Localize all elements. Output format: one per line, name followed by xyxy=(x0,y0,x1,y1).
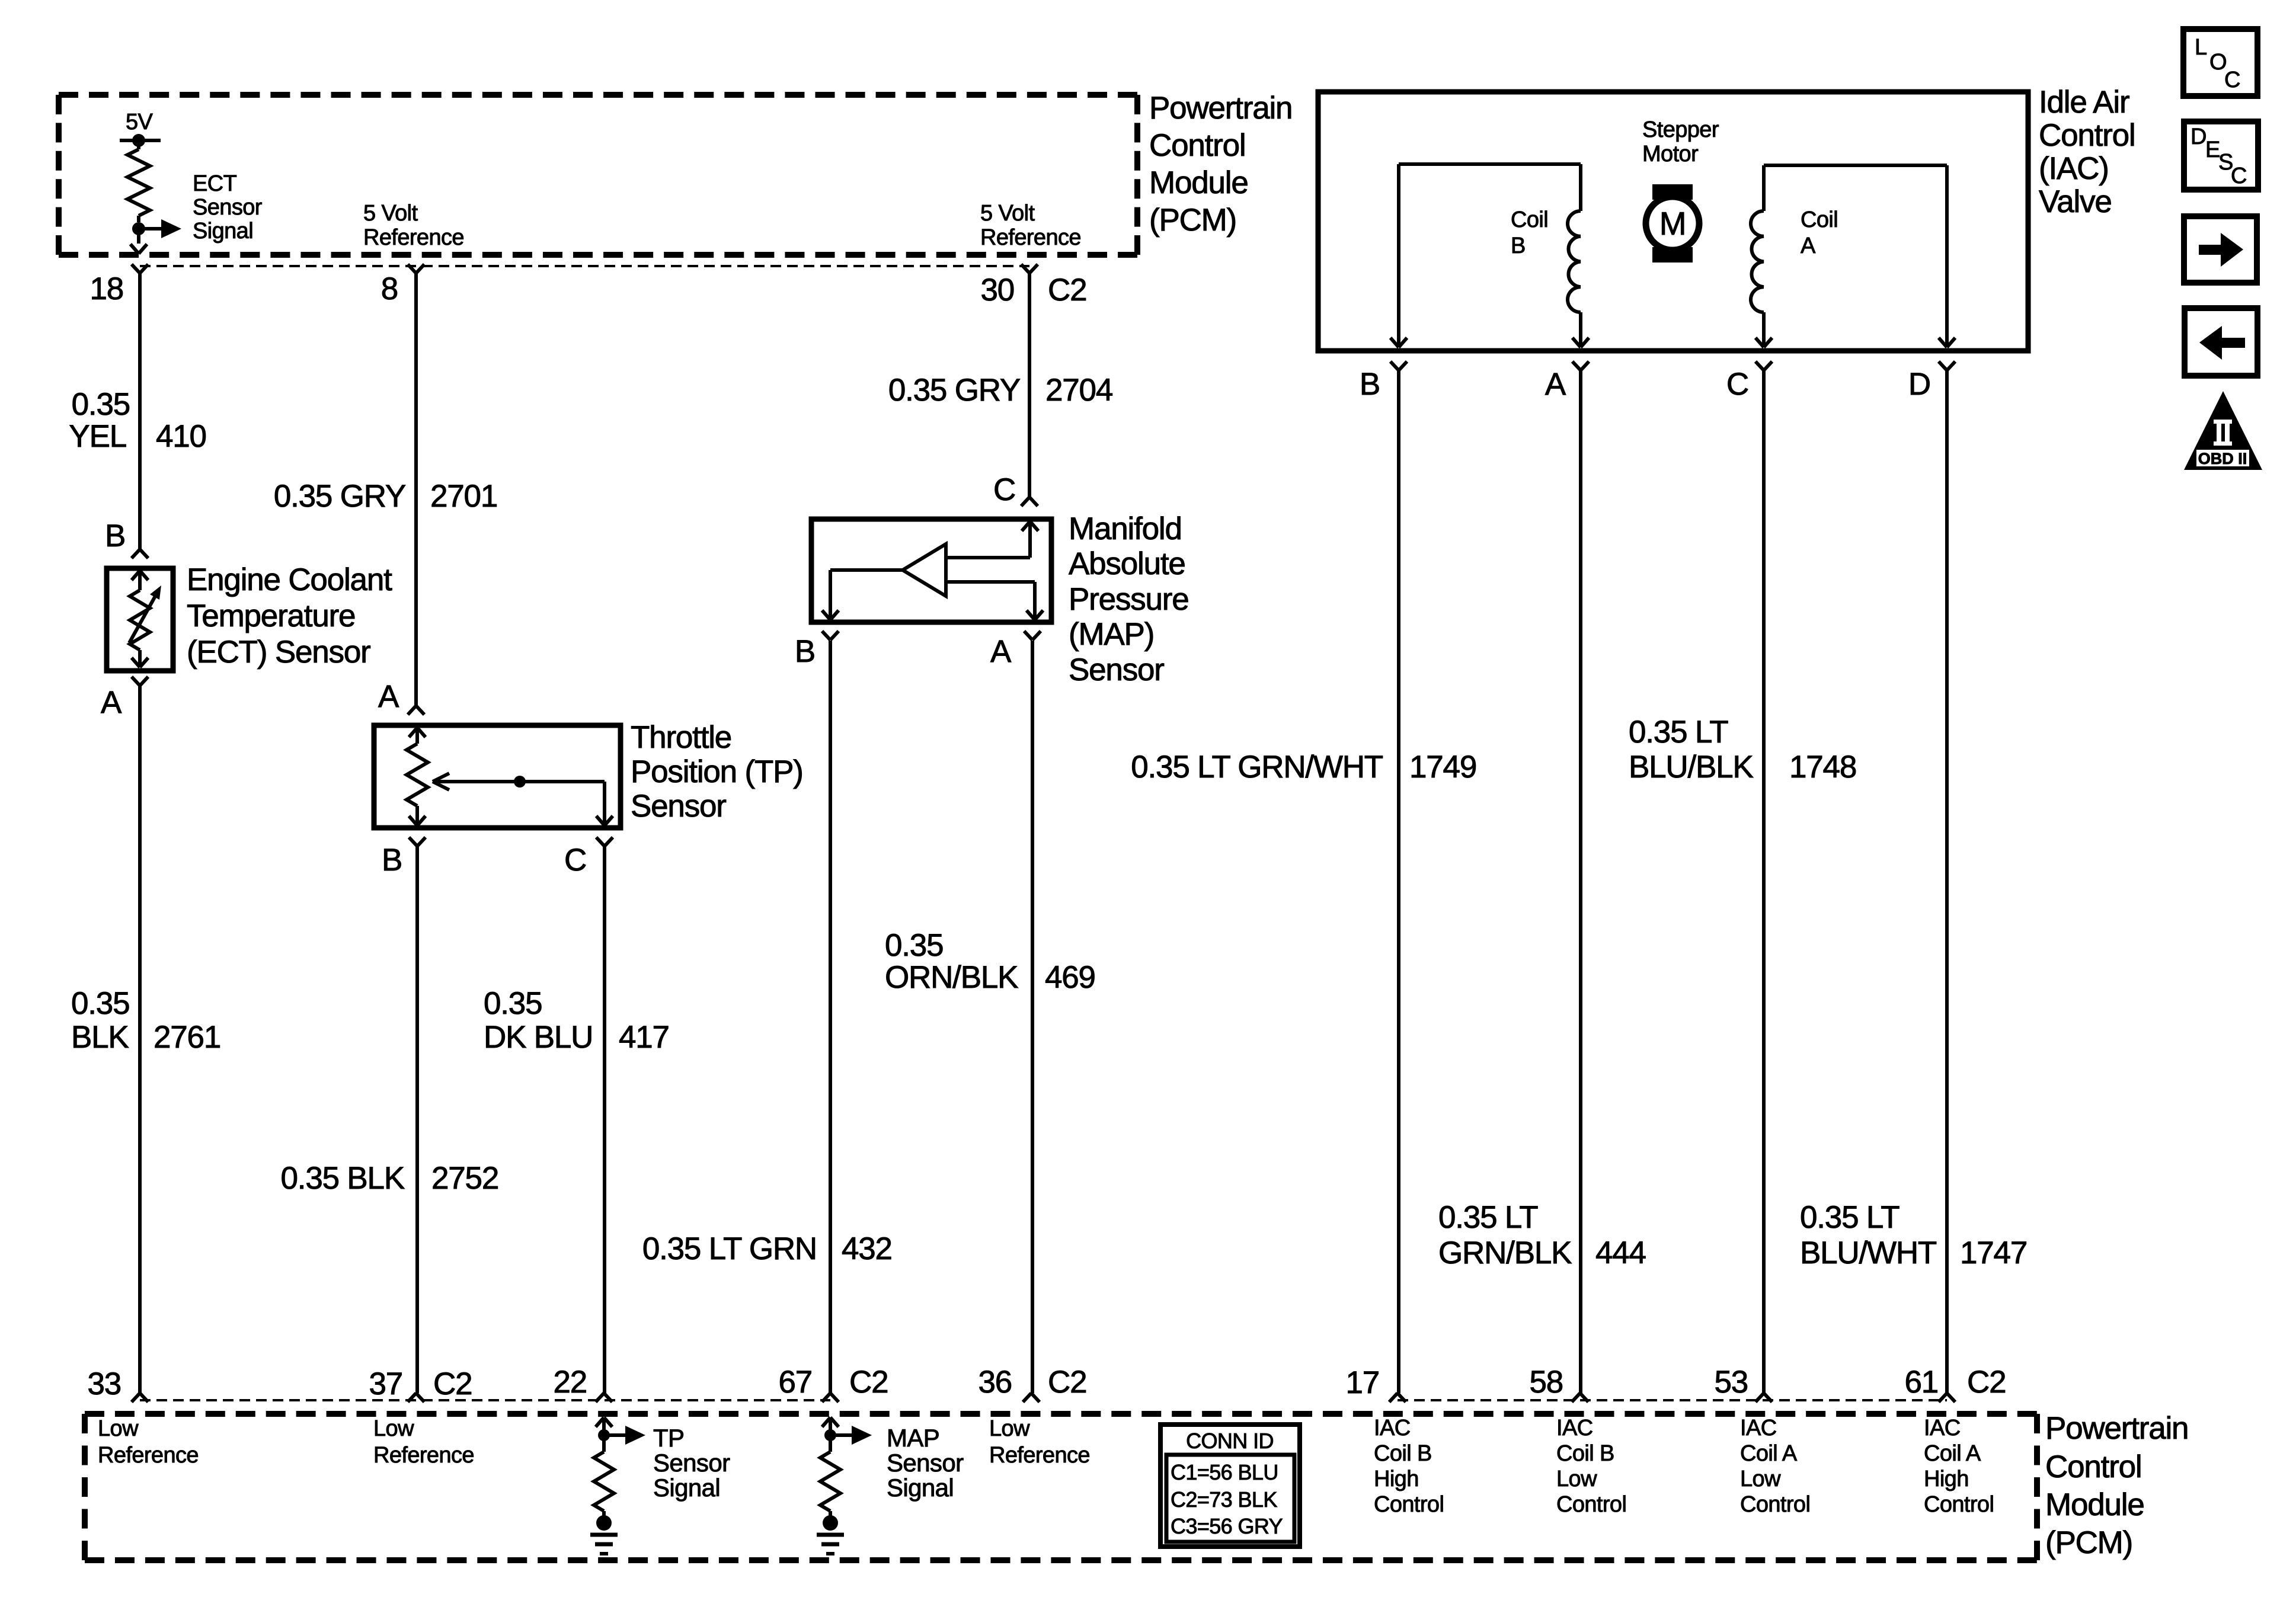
label IAC Coil A Low Control xyxy=(1740,1416,1810,1517)
label 410 xyxy=(156,419,206,454)
svg-text:37: 37 xyxy=(369,1366,402,1401)
svg-text:18: 18 xyxy=(89,271,123,306)
label Manifold Absolute Pressure (MAP) Sensor xyxy=(1069,511,1188,687)
svg-text:Position (TP): Position (TP) xyxy=(631,754,803,789)
pin 8 connector xyxy=(381,264,424,306)
wire ECT signal to PCM edge with down arrow xyxy=(130,229,147,254)
svg-text:Reference: Reference xyxy=(363,225,464,250)
label 2704 xyxy=(1045,373,1112,408)
pin A of MAP sensor xyxy=(990,631,1041,669)
svg-text:C: C xyxy=(993,472,1015,507)
svg-text:Control: Control xyxy=(1924,1492,1994,1517)
svg-text:C: C xyxy=(2231,164,2247,188)
label 0.35 BLK xyxy=(71,986,129,1055)
svg-text:Reference: Reference xyxy=(373,1443,474,1468)
svg-text:Motor: Motor xyxy=(1642,142,1699,167)
svg-text:(IAC): (IAC) xyxy=(2039,151,2109,186)
label 0.35 LT BLU/WHT xyxy=(1800,1200,1937,1270)
svg-text:Pressure: Pressure xyxy=(1069,582,1188,617)
pin 30 connector + C2 xyxy=(980,264,1086,308)
svg-text:C3=56 GRY: C3=56 GRY xyxy=(1171,1514,1283,1538)
svg-text:Throttle: Throttle xyxy=(631,720,731,755)
svg-text:Control: Control xyxy=(2045,1449,2141,1484)
label 0.35 LT GRN xyxy=(642,1231,817,1266)
wire 1747 LT BLU/WHT (IAC D to pin 61) xyxy=(1945,370,1949,1393)
svg-text:(PCM): (PCM) xyxy=(2045,1525,2132,1560)
ground (MAP signal) xyxy=(817,1515,844,1554)
svg-text:Coil A: Coil A xyxy=(1740,1441,1798,1466)
svg-text:Control: Control xyxy=(1740,1492,1810,1517)
svg-text:5 Volt: 5 Volt xyxy=(980,201,1035,226)
svg-text:Sensor: Sensor xyxy=(631,789,726,824)
icon arrow right box xyxy=(2184,216,2257,283)
wire 1748 LT BLU/BLK (IAC C to pin 53) xyxy=(1762,370,1766,1393)
svg-text:0.35 GRY: 0.35 GRY xyxy=(888,373,1021,408)
svg-text:58: 58 xyxy=(1529,1365,1563,1400)
wire 444 LT GRN/BLK (IAC A to pin 58) xyxy=(1579,370,1582,1393)
svg-text:Temperature: Temperature xyxy=(187,598,355,633)
label Low Reference (pin 37) xyxy=(373,1416,474,1468)
svg-text:Valve: Valve xyxy=(2039,184,2112,219)
stepper motor M symbol xyxy=(1646,184,1699,263)
svg-text:BLK: BLK xyxy=(71,1020,129,1055)
svg-text:0.35: 0.35 xyxy=(885,928,943,963)
ECT sensor box with thermistor xyxy=(107,568,173,671)
TP sensor box with potentiometer xyxy=(374,725,621,828)
svg-text:IAC: IAC xyxy=(1556,1416,1593,1441)
svg-text:2704: 2704 xyxy=(1045,373,1112,408)
label 0.35 GRY (2704) xyxy=(888,373,1021,408)
label Powertrain Control Module (PCM) bottom xyxy=(2045,1411,2188,1560)
svg-text:IAC: IAC xyxy=(1374,1416,1411,1441)
svg-text:30: 30 xyxy=(980,273,1014,308)
svg-text:C: C xyxy=(1726,367,1748,402)
svg-text:0.35 LT GRN: 0.35 LT GRN xyxy=(642,1231,817,1266)
label 417 xyxy=(619,1020,669,1055)
TP sensor signal input (arrow, junction, resistor, ground) inside PCM xyxy=(594,1417,645,1518)
label 0.35 YEL xyxy=(69,387,130,454)
svg-text:Absolute: Absolute xyxy=(1069,546,1185,581)
svg-text:Reference: Reference xyxy=(98,1443,199,1468)
svg-text:C1=56 BLU: C1=56 BLU xyxy=(1171,1460,1278,1484)
MAP sensor box with amplifier xyxy=(811,519,1051,622)
svg-text:Low: Low xyxy=(373,1416,414,1441)
svg-text:Signal: Signal xyxy=(193,219,253,244)
label 0.35 BLK (2752) xyxy=(281,1161,405,1196)
svg-text:Coil: Coil xyxy=(1511,207,1548,232)
label 2752 xyxy=(431,1161,498,1196)
svg-text:IAC: IAC xyxy=(1740,1416,1777,1441)
wire 417 DK BLU (TP sensor C to pin 22) xyxy=(603,846,606,1393)
label 0.35 LT BLU/BLK xyxy=(1629,715,1753,785)
svg-text:Coil B: Coil B xyxy=(1374,1441,1432,1466)
PCM top dashed box (Powertrain Control Module) xyxy=(59,95,1137,255)
svg-text:2761: 2761 xyxy=(154,1020,220,1055)
svg-text:B: B xyxy=(382,843,402,878)
connector C2 inline (bottom right thin dashed line) xyxy=(1398,1399,1947,1401)
label 432 xyxy=(842,1231,892,1266)
pin C of MAP sensor xyxy=(993,472,1038,507)
PCM bottom dashed box (Powertrain Control Module) xyxy=(85,1414,2037,1560)
svg-text:Control: Control xyxy=(2039,118,2135,153)
pin B of MAP sensor xyxy=(795,631,839,669)
svg-text:Control: Control xyxy=(1374,1492,1444,1517)
ground (TP signal) xyxy=(590,1515,618,1554)
svg-text:ORN/BLK: ORN/BLK xyxy=(885,960,1018,995)
svg-text:M: M xyxy=(1659,205,1686,242)
svg-text:0.35 BLK: 0.35 BLK xyxy=(281,1161,405,1196)
svg-text:0.35: 0.35 xyxy=(71,986,129,1021)
wire 2761 BLK (ECT sensor A to pin 33) xyxy=(138,686,142,1393)
pin A of IAC valve xyxy=(1545,361,1589,402)
svg-text:0.35: 0.35 xyxy=(72,387,130,422)
svg-text:410: 410 xyxy=(156,419,206,454)
svg-text:(ECT) Sensor: (ECT) Sensor xyxy=(187,635,370,670)
label 5 Volt Reference (pin 8) xyxy=(363,201,464,250)
pin 53 connector xyxy=(1714,1365,1772,1402)
svg-text:Control: Control xyxy=(1149,128,1245,163)
svg-text:Reference: Reference xyxy=(980,225,1081,250)
pin B of IAC valve xyxy=(1360,361,1407,402)
pin 37 connector + C2 xyxy=(369,1366,472,1402)
pin 61 connector + C2 xyxy=(1904,1365,2006,1402)
wire 410 YEL (pin 18 to ECT sensor B) xyxy=(138,273,142,549)
svg-text:22: 22 xyxy=(553,1365,587,1400)
svg-text:Control: Control xyxy=(1556,1492,1626,1517)
svg-text:5 Volt: 5 Volt xyxy=(363,201,418,226)
label Low Reference (pin 36) xyxy=(989,1416,1090,1468)
icon arrow left box xyxy=(2185,308,2257,376)
svg-text:33: 33 xyxy=(87,1366,121,1401)
label Coil A xyxy=(1801,207,1838,258)
svg-text:TP: TP xyxy=(653,1424,684,1452)
svg-text:Manifold: Manifold xyxy=(1069,511,1182,546)
svg-text:Engine Coolant: Engine Coolant xyxy=(187,562,392,597)
svg-text:MAP: MAP xyxy=(887,1424,939,1452)
svg-text:Module: Module xyxy=(2045,1487,2144,1522)
label Stepper Motor xyxy=(1642,117,1719,167)
svg-text:Sensor: Sensor xyxy=(193,195,263,220)
svg-text:17: 17 xyxy=(1345,1365,1379,1400)
svg-text:C2: C2 xyxy=(1048,1365,1086,1400)
svg-text:YEL: YEL xyxy=(69,419,126,454)
svg-text:Low: Low xyxy=(1740,1467,1781,1491)
pin B of TP sensor xyxy=(382,837,426,878)
label Throttle Position (TP) Sensor xyxy=(631,720,803,824)
svg-text:(PCM): (PCM) xyxy=(1149,203,1236,238)
node 5V supply xyxy=(120,110,161,147)
label Engine Coolant Temperature (ECT) Sensor xyxy=(187,562,392,670)
svg-text:8: 8 xyxy=(381,271,398,306)
label IAC Coil A High Control xyxy=(1924,1416,1994,1517)
pin 36 connector + C2 xyxy=(978,1365,1086,1402)
svg-text:C2: C2 xyxy=(1048,273,1086,308)
svg-text:B: B xyxy=(1511,233,1526,258)
label IAC Coil B High Control xyxy=(1374,1416,1444,1517)
svg-text:GRN/BLK: GRN/BLK xyxy=(1438,1235,1572,1270)
label 2761 xyxy=(154,1020,220,1055)
svg-text:432: 432 xyxy=(842,1231,892,1266)
pin 17 connector xyxy=(1345,1365,1406,1402)
svg-text:2701: 2701 xyxy=(430,479,497,514)
label 469 xyxy=(1045,960,1095,995)
svg-text:A: A xyxy=(1801,233,1816,258)
svg-text:C2=73 BLK: C2=73 BLK xyxy=(1171,1487,1277,1512)
svg-text:Stepper: Stepper xyxy=(1642,117,1719,142)
svg-text:0.35 LT: 0.35 LT xyxy=(1800,1200,1900,1235)
svg-text:High: High xyxy=(1924,1467,1969,1491)
svg-text:C2: C2 xyxy=(849,1365,888,1400)
coil A of IAC (loop with inductor) xyxy=(1751,165,1955,347)
CONN ID table xyxy=(1160,1425,1300,1547)
IAC valve box (Idle Air Control) xyxy=(1318,92,2028,351)
svg-text:C: C xyxy=(564,843,586,878)
pin 18 connector xyxy=(89,264,148,306)
svg-text:1747: 1747 xyxy=(1960,1235,2027,1270)
label IAC Coil B Low Control xyxy=(1556,1416,1626,1517)
pin A of ECT sensor xyxy=(101,677,148,720)
pin C of TP sensor xyxy=(564,837,613,878)
pin B of ECT sensor xyxy=(105,518,148,558)
icon OBD II triangle xyxy=(2184,391,2262,470)
svg-text:ECT: ECT xyxy=(193,171,237,196)
svg-text:OBD II: OBD II xyxy=(2198,450,2247,468)
svg-text:0.35 LT: 0.35 LT xyxy=(1629,715,1728,750)
svg-text:Module: Module xyxy=(1149,165,1248,200)
label 0.35 GRY xyxy=(274,479,406,514)
label 0.35 LT GRN/WHT xyxy=(1131,750,1383,785)
svg-text:0.35: 0.35 xyxy=(484,986,542,1021)
svg-text:469: 469 xyxy=(1045,960,1095,995)
svg-text:1749: 1749 xyxy=(1409,750,1476,785)
MAP sensor signal input (arrow, junction, resistor, ground) inside PCM xyxy=(820,1417,872,1518)
pin 33 connector xyxy=(87,1366,148,1402)
svg-text:B: B xyxy=(1360,367,1380,402)
pin C of IAC valve xyxy=(1726,361,1772,402)
label 0.35 ORN/BLK xyxy=(885,928,1018,995)
svg-text:IAC: IAC xyxy=(1924,1416,1961,1441)
svg-text:36: 36 xyxy=(978,1365,1012,1400)
label 5 Volt Reference (pin 30) xyxy=(980,201,1081,250)
svg-text:61: 61 xyxy=(1904,1365,1938,1400)
svg-text:Sensor: Sensor xyxy=(887,1449,964,1477)
svg-text:DK BLU: DK BLU xyxy=(484,1020,593,1055)
icon LOC box xyxy=(2183,29,2257,96)
svg-text:L: L xyxy=(2195,35,2207,60)
svg-text:Coil B: Coil B xyxy=(1556,1441,1614,1466)
label 1749 xyxy=(1409,750,1476,785)
coil B of IAC (loop with inductor) xyxy=(1390,164,1589,347)
wire 2704 GRY (pin 30 to MAP sensor C) xyxy=(1028,273,1031,497)
svg-text:B: B xyxy=(105,518,125,553)
connector C2 inline (top thin dashed line) xyxy=(140,265,1029,267)
svg-text:Idle Air: Idle Air xyxy=(2039,85,2129,120)
svg-text:Sensor: Sensor xyxy=(653,1449,730,1477)
label 2701 xyxy=(430,479,497,514)
pin A of TP sensor xyxy=(378,679,424,715)
wire 432 LT GRN (MAP sensor B to pin 67) xyxy=(829,641,832,1393)
svg-text:0.35 GRY: 0.35 GRY xyxy=(274,479,406,514)
label 1747 xyxy=(1960,1235,2027,1270)
svg-text:C2: C2 xyxy=(1967,1365,2006,1400)
svg-text:Sensor: Sensor xyxy=(1069,652,1164,687)
svg-text:Signal: Signal xyxy=(887,1474,954,1502)
svg-text:D: D xyxy=(1908,367,1930,402)
svg-text:A: A xyxy=(101,685,122,720)
label Powertrain Control Module (PCM) top xyxy=(1149,91,1292,238)
svg-text:Low: Low xyxy=(98,1416,139,1441)
svg-text:0.35 LT: 0.35 LT xyxy=(1438,1200,1538,1235)
label Low Reference (pin 33) xyxy=(98,1416,199,1468)
label Coil B xyxy=(1511,207,1548,258)
svg-text:Powertrain: Powertrain xyxy=(1149,91,1292,126)
connector C2 inline (bottom left thin dashed line) xyxy=(140,1399,830,1401)
icon DESC box xyxy=(2184,121,2258,190)
svg-text:High: High xyxy=(1374,1467,1419,1491)
svg-text:Low: Low xyxy=(1556,1467,1597,1491)
svg-text:B: B xyxy=(795,634,815,669)
resistor ECT pullup (inside PCM) xyxy=(127,140,150,222)
wire 2701 GRY (pin 8 to TP sensor A) xyxy=(414,273,418,706)
wire 2752 BLK (TP sensor B to pin 37) xyxy=(415,846,419,1393)
svg-text:Signal: Signal xyxy=(653,1474,720,1502)
svg-text:53: 53 xyxy=(1714,1365,1748,1400)
label 0.35 DK BLU xyxy=(484,986,593,1055)
wire 1749 LT GRN/WHT (IAC B to pin 17) xyxy=(1397,370,1400,1393)
svg-text:67: 67 xyxy=(778,1365,812,1400)
pin 58 connector xyxy=(1529,1365,1588,1402)
svg-text:Reference: Reference xyxy=(989,1443,1090,1468)
svg-text:C: C xyxy=(2224,68,2240,92)
svg-text:1748: 1748 xyxy=(1789,750,1856,785)
label MAP Sensor Signal xyxy=(887,1424,964,1502)
svg-text:Coil A: Coil A xyxy=(1924,1441,1981,1466)
svg-text:A: A xyxy=(990,634,1012,669)
svg-text:0.35 LT GRN/WHT: 0.35 LT GRN/WHT xyxy=(1131,750,1383,785)
svg-text:A: A xyxy=(1545,367,1566,402)
label 1748 xyxy=(1789,750,1856,785)
pin 22 connector xyxy=(553,1365,612,1402)
svg-text:(MAP): (MAP) xyxy=(1069,617,1154,652)
label TP Sensor Signal xyxy=(653,1424,730,1502)
wire 469 ORN/BLK (MAP sensor A to pin 36) xyxy=(1031,641,1034,1393)
svg-text:Powertrain: Powertrain xyxy=(2045,1411,2188,1446)
svg-text:BLU/BLK: BLU/BLK xyxy=(1629,750,1753,785)
pin 67 connector + C2 xyxy=(778,1365,888,1402)
svg-text:C2: C2 xyxy=(433,1366,472,1401)
svg-text:5V: 5V xyxy=(126,110,154,135)
svg-text:A: A xyxy=(378,679,399,714)
svg-text:D: D xyxy=(2191,124,2207,149)
svg-text:Coil: Coil xyxy=(1801,207,1838,232)
svg-text:2752: 2752 xyxy=(431,1161,498,1196)
svg-text:BLU/WHT: BLU/WHT xyxy=(1800,1235,1937,1270)
label 444 xyxy=(1595,1235,1646,1270)
label Idle Air Control (IAC) Valve xyxy=(2039,85,2135,219)
label 0.35 LT GRN/BLK xyxy=(1438,1200,1572,1270)
junction ECT signal node + arrow ECT Sensor Signal xyxy=(132,171,263,244)
pin D of IAC valve xyxy=(1908,361,1955,402)
svg-text:CONN ID: CONN ID xyxy=(1186,1429,1274,1453)
svg-text:417: 417 xyxy=(619,1020,669,1055)
svg-text:Low: Low xyxy=(989,1416,1030,1441)
svg-text:444: 444 xyxy=(1595,1235,1646,1270)
